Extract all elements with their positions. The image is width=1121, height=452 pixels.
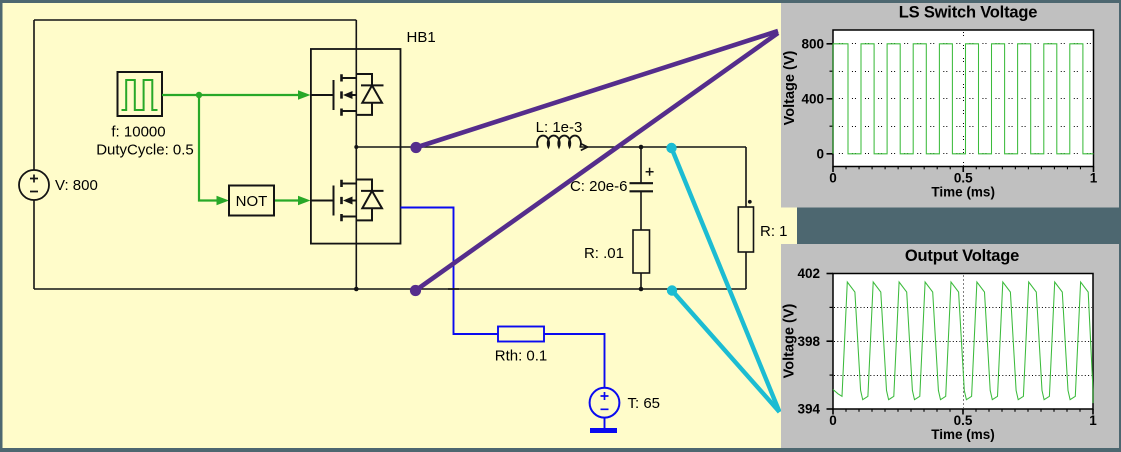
half-bridge HB1 box	[311, 49, 401, 244]
plot area	[833, 274, 1093, 410]
thermal ground	[590, 428, 617, 433]
svg-text:Time (ms): Time (ms)	[931, 185, 995, 200]
probe dot out+	[666, 143, 676, 153]
svg-text:398: 398	[797, 334, 820, 349]
transistor Q2 low-side (MOSFET with diode)	[311, 180, 384, 222]
svg-text:0.5: 0.5	[954, 171, 973, 186]
svg-text:Voltage (V): Voltage (V)	[782, 51, 798, 126]
svg-text:394: 394	[797, 402, 820, 417]
probe dot out-	[667, 285, 677, 295]
wire T to ground	[604, 418, 606, 428]
svg-text:L: 1e-3: L: 1e-3	[536, 119, 583, 136]
wire R bottom	[640, 273, 642, 289]
wire thermal from HB1	[401, 208, 499, 335]
probe line to LS scope (bottom)	[416, 33, 779, 291]
wire mid rail left	[356, 146, 538, 148]
svg-text:0: 0	[816, 146, 824, 161]
svg-text:Output Voltage: Output Voltage	[905, 247, 1019, 265]
wire bottom rail	[34, 288, 746, 290]
node junction dots	[354, 145, 643, 292]
NOT gate	[229, 186, 274, 216]
svg-text:LS Switch Voltage: LS Switch Voltage	[899, 4, 1037, 22]
temperature source T1	[590, 388, 620, 418]
wire Rth to T	[544, 334, 605, 388]
svg-text:400: 400	[801, 92, 824, 107]
slate divider bar	[797, 208, 1121, 245]
scope panel 1 background	[781, 3, 1119, 208]
gridline	[839, 126, 1093, 128]
wire bottom rail over blue crossing	[448, 288, 459, 290]
probe line to output scope (top)	[672, 148, 780, 412]
probe line to LS scope (top)	[416, 31, 778, 148]
wire HB1 main vertical	[355, 20, 357, 289]
gridline	[839, 153, 1093, 155]
capacitor C1	[630, 183, 654, 191]
green junction dot	[196, 92, 202, 98]
wire pulse branch down	[199, 95, 218, 201]
wire pulse to HB1 gate top	[162, 94, 299, 96]
svg-text:0.5: 0.5	[954, 413, 973, 428]
transistor Q1 high-side (MOSFET with diode)	[311, 74, 384, 116]
svg-text:1: 1	[1089, 413, 1097, 428]
scope panel 2 background	[781, 244, 1119, 448]
gridline	[839, 43, 1093, 45]
svg-text:R: 1: R: 1	[760, 223, 788, 240]
gridline	[834, 375, 1092, 377]
resistor R2 (.01)	[633, 230, 650, 273]
resistor Rth	[498, 327, 544, 342]
svg-text:Time (ms): Time (ms)	[931, 427, 995, 442]
svg-text:0: 0	[829, 413, 837, 428]
probe dot mid rail	[410, 142, 421, 153]
gridline	[839, 98, 1093, 100]
gridline	[839, 71, 1093, 73]
svg-text:R: .01: R: .01	[584, 245, 624, 262]
wire C branch top	[640, 147, 642, 183]
svg-text:Rth: 0.1: Rth: 0.1	[495, 347, 548, 364]
gridline vertical 0.5	[963, 276, 965, 409]
wire left rail lower	[33, 200, 35, 289]
svg-text:402: 402	[797, 266, 820, 281]
gridline	[834, 341, 1092, 343]
waveform LS switch	[833, 44, 1094, 154]
svg-text:Voltage (V): Voltage (V)	[782, 304, 798, 379]
wire load branch bottom	[745, 252, 747, 289]
schematic canvas	[3, 3, 798, 448]
wire top rail	[34, 19, 356, 21]
svg-text:V: 800: V: 800	[55, 177, 98, 194]
svg-text:800: 800	[801, 37, 824, 52]
svg-text:NOT: NOT	[236, 193, 268, 210]
gridline vertical 0.5	[963, 32, 965, 166]
gridline	[834, 307, 1092, 309]
node mid-point dot	[354, 145, 358, 149]
svg-text:0: 0	[829, 171, 837, 186]
inductor L1	[537, 136, 581, 147]
probe dot bottom rail	[410, 285, 421, 296]
resistor R1 (load)	[738, 207, 753, 252]
voltage source V1	[19, 170, 49, 200]
svg-text:1: 1	[1090, 171, 1098, 186]
plot area	[833, 30, 1094, 167]
arrowhead into bottom gate	[298, 196, 311, 206]
wire C-R link	[640, 192, 642, 231]
wire mid rail right	[580, 146, 747, 148]
probe line to output scope (bottom)	[672, 291, 780, 413]
arrowhead into top gate	[298, 90, 311, 100]
wire NOT to HB1 gate bottom	[274, 199, 299, 201]
svg-text:f: 10000: f: 10000	[111, 124, 165, 141]
svg-text:HB1: HB1	[407, 29, 436, 46]
pulse generator	[118, 72, 163, 116]
wire load branch top	[745, 147, 747, 207]
waveform output voltage	[833, 282, 1093, 403]
svg-text:DutyCycle: 0.5: DutyCycle: 0.5	[96, 142, 194, 159]
arrowhead into NOT	[217, 196, 230, 206]
svg-text:C: 20e-6: C: 20e-6	[570, 178, 628, 195]
svg-text:T: 65: T: 65	[628, 395, 661, 412]
wire left rail upper	[33, 20, 35, 170]
